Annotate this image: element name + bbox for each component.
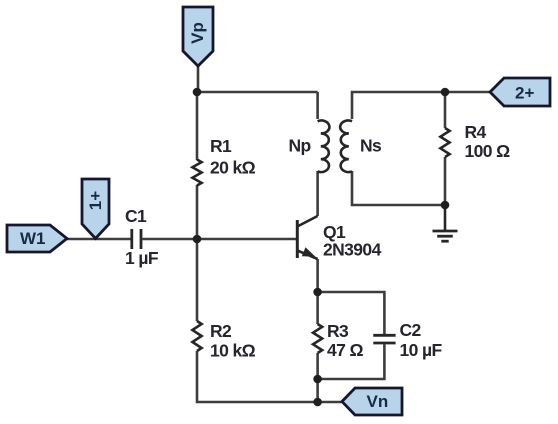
wire R2 bottom to bottom rail corner and rail to Vn tip: [197, 351, 342, 402]
svg-text:2N3904: 2N3904: [323, 240, 382, 260]
wire R1 bottom to base node: [196, 185, 199, 239]
node Vp rail junction: [193, 88, 202, 97]
wire primary coil top to rail: [316, 92, 319, 119]
svg-text:47 Ω: 47 Ω: [327, 340, 364, 360]
svg-text:Vn: Vn: [367, 392, 389, 411]
node R3 C2 bottom junction: [313, 375, 322, 384]
svg-text:10 kΩ: 10 kΩ: [210, 341, 256, 361]
svg-text:Ns: Ns: [360, 136, 382, 156]
wire W1 tip to C1: [67, 238, 131, 241]
wire output node to 2+ flag: [445, 91, 490, 94]
wire emitter vertical to node: [316, 259, 319, 292]
wire secondary bottom loop: [352, 171, 445, 205]
svg-text:10 µF: 10 µF: [400, 340, 443, 360]
wire C2 bottom branch: [318, 344, 385, 379]
svg-text:1 µF: 1 µF: [125, 248, 159, 268]
capacitor C2: [373, 320, 442, 360]
svg-text:R4: R4: [465, 122, 487, 142]
wire C2 top branch: [318, 292, 385, 334]
node bottom rail junction: [313, 398, 322, 407]
svg-text:20 kΩ: 20 kΩ: [210, 158, 256, 178]
wire lower node to bottom rail: [316, 379, 319, 402]
flag 2+: [490, 78, 550, 106]
node base junction: [193, 235, 202, 244]
wire left vertical Vp node to R1: [196, 91, 199, 160]
ground: [433, 205, 458, 241]
transistor Q1: [297, 216, 381, 260]
wire R4 top stub: [444, 92, 447, 128]
wire top rail Vp to primary: [197, 91, 318, 94]
resistor R1: [192, 136, 255, 186]
wire R3 bottom to lower node: [316, 353, 319, 379]
wire collector vertical: [316, 171, 319, 216]
svg-text:C1: C1: [125, 206, 147, 226]
svg-text:Vp: Vp: [188, 22, 207, 44]
resistor R3: [313, 321, 364, 360]
svg-text:C2: C2: [400, 320, 422, 340]
svg-text:R1: R1: [210, 136, 232, 156]
flag Vp: [183, 7, 213, 66]
svg-text:W1: W1: [20, 229, 46, 248]
wire C1 to base bar: [143, 238, 297, 241]
flag W1: [7, 225, 67, 252]
node output bottom junction: [441, 201, 450, 210]
inductor Np transformer primary: [289, 121, 330, 173]
svg-text:R2: R2: [210, 321, 232, 341]
svg-text:2+: 2+: [515, 84, 534, 103]
svg-text:R3: R3: [327, 321, 349, 341]
wire secondary top loop: [352, 92, 445, 119]
resistor R4: [440, 122, 510, 161]
wire base node to R2 top: [196, 239, 199, 321]
resistor R2: [192, 321, 255, 361]
flag Vn: [342, 388, 402, 415]
wire Vp stub: [197, 64, 200, 92]
node emitter junction: [313, 288, 322, 297]
capacitor C1: [125, 206, 159, 268]
inductor Ns transformer secondary: [340, 121, 382, 173]
node output top junction: [441, 88, 450, 97]
svg-text:100 Ω: 100 Ω: [465, 141, 511, 161]
svg-text:Np: Np: [289, 136, 311, 156]
wire emitter node to R3: [316, 292, 319, 324]
svg-text:1+: 1+: [86, 191, 105, 210]
wire R4 bottom stub: [444, 157, 447, 205]
flag 1+: [82, 179, 109, 239]
